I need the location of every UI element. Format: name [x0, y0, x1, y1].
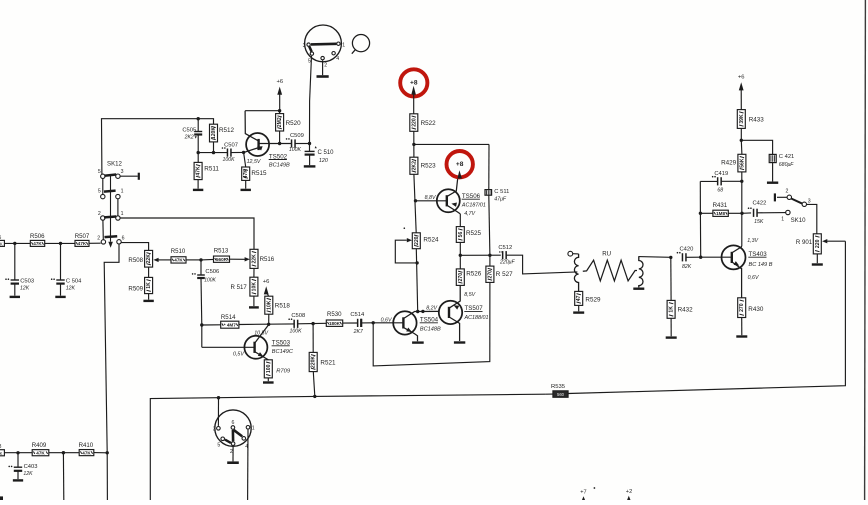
- svg-text:4,7V: 4,7V: [464, 211, 475, 217]
- svg-text:AC188/01: AC188/01: [464, 315, 489, 321]
- svg-text:C512: C512: [498, 245, 512, 251]
- svg-text:1,3V: 1,3V: [747, 238, 758, 244]
- svg-text:5: 5: [308, 59, 311, 65]
- svg-text:2: 2: [786, 188, 789, 194]
- svg-text:56: 56: [458, 232, 464, 238]
- svg-text:R524: R524: [423, 236, 439, 243]
- svg-text:R518: R518: [275, 303, 291, 310]
- svg-text:47K: 47K: [33, 241, 42, 246]
- svg-text:RU: RU: [602, 250, 611, 257]
- svg-text:R430: R430: [748, 306, 764, 313]
- svg-text:R512: R512: [219, 127, 235, 134]
- svg-text:270: 270: [458, 273, 464, 282]
- svg-text:R431: R431: [713, 202, 728, 209]
- svg-text:270: 270: [739, 303, 745, 312]
- svg-text:R433: R433: [749, 116, 765, 123]
- svg-text:4: 4: [336, 56, 339, 62]
- svg-text:47K: 47K: [36, 450, 45, 455]
- svg-text:R530: R530: [327, 311, 342, 318]
- svg-text:2K7: 2K7: [353, 329, 364, 335]
- svg-text:R525: R525: [466, 230, 482, 237]
- svg-text:R529: R529: [585, 297, 601, 304]
- svg-text:12,5V: 12,5V: [247, 159, 261, 165]
- svg-text:3: 3: [303, 43, 306, 49]
- svg-text:R409: R409: [32, 442, 47, 449]
- svg-text:47K: 47K: [174, 258, 183, 263]
- svg-text:2: 2: [324, 63, 327, 69]
- svg-text:C419: C419: [714, 171, 728, 177]
- svg-text:6: 6: [232, 420, 235, 426]
- svg-text:R432: R432: [678, 306, 694, 313]
- svg-text:1: 1: [252, 426, 255, 432]
- svg-text:R509: R509: [128, 286, 143, 293]
- svg-text:8,2V: 8,2V: [426, 306, 437, 312]
- svg-text:5: 5: [98, 169, 101, 175]
- svg-text:56K: 56K: [739, 158, 745, 168]
- svg-text:+8: +8: [410, 80, 418, 87]
- svg-text:+6: +6: [738, 74, 745, 80]
- svg-text:8,8V: 8,8V: [425, 195, 436, 201]
- svg-text:1K: 1K: [669, 306, 675, 313]
- svg-text:680μF: 680μF: [779, 162, 794, 168]
- svg-text:R510: R510: [171, 248, 186, 255]
- svg-text:R513: R513: [214, 248, 229, 255]
- svg-text:220: 220: [411, 118, 417, 127]
- svg-text:R535: R535: [551, 384, 566, 390]
- svg-text:R508: R508: [128, 257, 143, 264]
- svg-text:05: 05: [0, 235, 1, 241]
- svg-text:2K2: 2K2: [184, 134, 194, 140]
- svg-text:1K: 1K: [146, 282, 152, 289]
- svg-text:C 510: C 510: [318, 150, 335, 156]
- svg-text:K: K: [0, 241, 3, 246]
- svg-text:BC148B: BC148B: [420, 326, 441, 332]
- svg-text:R521: R521: [320, 359, 336, 366]
- svg-text:3: 3: [213, 427, 216, 433]
- svg-text:220: 220: [815, 239, 821, 248]
- svg-text:R506: R506: [30, 233, 45, 240]
- svg-text:180K: 180K: [329, 321, 341, 326]
- svg-text:47μF: 47μF: [494, 196, 507, 202]
- svg-text:C514: C514: [350, 312, 365, 318]
- svg-text:47: 47: [576, 295, 582, 301]
- svg-text:2: 2: [97, 235, 100, 241]
- svg-text:10,5V: 10,5V: [254, 331, 268, 337]
- svg-text:R520: R520: [286, 120, 302, 127]
- svg-text:10K: 10K: [266, 300, 272, 310]
- svg-text:C503: C503: [20, 278, 34, 284]
- svg-text:22K: 22K: [252, 254, 258, 264]
- svg-text:+8: +8: [456, 161, 464, 168]
- svg-text:47K: 47K: [196, 166, 202, 176]
- svg-text:120: 120: [319, 158, 328, 164]
- svg-text:3: 3: [121, 169, 124, 175]
- svg-text:C507: C507: [224, 143, 238, 149]
- svg-text:39K: 39K: [739, 114, 745, 124]
- svg-text:5: 5: [98, 189, 101, 195]
- svg-text:47K: 47K: [78, 241, 87, 246]
- svg-text:560: 560: [557, 392, 565, 397]
- svg-text:C508: C508: [291, 313, 305, 319]
- svg-text:100: 100: [266, 364, 272, 373]
- svg-text:12K: 12K: [20, 285, 30, 291]
- svg-text:C509: C509: [290, 133, 304, 139]
- svg-text:15K: 15K: [754, 219, 764, 225]
- svg-text:R507: R507: [75, 233, 90, 240]
- svg-text:1M8: 1M8: [716, 211, 725, 216]
- svg-text:R709: R709: [276, 368, 291, 374]
- svg-text:+2: +2: [626, 489, 632, 495]
- svg-text:C403: C403: [24, 464, 38, 470]
- svg-text:R 527: R 527: [496, 271, 513, 278]
- svg-text:6: 6: [122, 236, 125, 242]
- svg-text:220K: 220K: [311, 356, 317, 368]
- svg-text:SK12: SK12: [107, 160, 123, 167]
- svg-text:10K: 10K: [251, 282, 257, 292]
- svg-text:0,5V: 0,5V: [233, 351, 244, 357]
- svg-text:100K: 100K: [204, 277, 216, 283]
- svg-text:R 901: R 901: [796, 239, 813, 246]
- svg-text:8,5V: 8,5V: [464, 292, 475, 298]
- svg-text:120K: 120K: [211, 127, 217, 139]
- svg-text:12K: 12K: [66, 285, 76, 291]
- svg-text:AC187/01: AC187/01: [461, 202, 486, 208]
- svg-text:K: K: [0, 451, 3, 456]
- svg-text:1: 1: [121, 211, 124, 217]
- svg-text:82K: 82K: [682, 264, 692, 270]
- svg-text:1: 1: [121, 189, 124, 195]
- svg-text:BC149C: BC149C: [272, 349, 294, 355]
- svg-text:47K: 47K: [82, 450, 91, 455]
- svg-text:12K: 12K: [23, 471, 33, 477]
- svg-text:22K: 22K: [146, 254, 152, 264]
- svg-text:SK10: SK10: [791, 217, 807, 224]
- svg-text:+7: +7: [580, 489, 586, 495]
- svg-text:220μF: 220μF: [499, 260, 515, 266]
- svg-text:C 504: C 504: [66, 278, 82, 284]
- svg-text:R526: R526: [466, 271, 482, 278]
- svg-text:2K2: 2K2: [411, 161, 417, 171]
- svg-text:C 421: C 421: [779, 154, 794, 160]
- svg-text:100K: 100K: [290, 328, 303, 334]
- svg-text:* 4M7: * 4M7: [224, 322, 236, 327]
- svg-text:R511: R511: [204, 165, 219, 172]
- svg-text:C506: C506: [205, 269, 219, 275]
- svg-text:0,6V: 0,6V: [748, 275, 759, 281]
- svg-text:100K: 100K: [289, 147, 302, 153]
- svg-text:C 511: C 511: [494, 189, 509, 195]
- svg-text:R515: R515: [251, 170, 267, 177]
- svg-text:R514: R514: [221, 314, 236, 321]
- svg-text:R 517: R 517: [231, 284, 248, 291]
- svg-text:C422: C422: [752, 200, 766, 206]
- svg-text:R522: R522: [421, 120, 437, 127]
- svg-text:270: 270: [487, 270, 493, 279]
- svg-text:+6: +6: [263, 279, 270, 285]
- svg-text:1: 1: [781, 216, 784, 222]
- svg-text:3: 3: [808, 198, 811, 204]
- svg-text:560R: 560R: [216, 257, 228, 262]
- svg-text:BC 149 B: BC 149 B: [749, 262, 773, 268]
- svg-text:R429: R429: [721, 159, 737, 166]
- svg-text:2M2: 2M2: [277, 117, 283, 127]
- svg-text:C505: C505: [182, 128, 196, 134]
- svg-text:100K: 100K: [222, 157, 235, 163]
- svg-text:8: 8: [0, 444, 2, 450]
- svg-text:C420: C420: [679, 247, 693, 253]
- svg-text:2: 2: [230, 449, 233, 455]
- svg-text:220: 220: [414, 236, 420, 245]
- svg-text:1: 1: [342, 42, 345, 48]
- svg-text:R523: R523: [421, 162, 437, 169]
- svg-text:+6: +6: [276, 79, 283, 85]
- svg-text:BC149B: BC149B: [269, 162, 290, 168]
- svg-text:68: 68: [717, 188, 723, 194]
- svg-text:5: 5: [217, 443, 220, 449]
- svg-text:R410: R410: [79, 442, 94, 449]
- svg-text:2: 2: [98, 211, 101, 217]
- svg-text:R516: R516: [260, 256, 275, 263]
